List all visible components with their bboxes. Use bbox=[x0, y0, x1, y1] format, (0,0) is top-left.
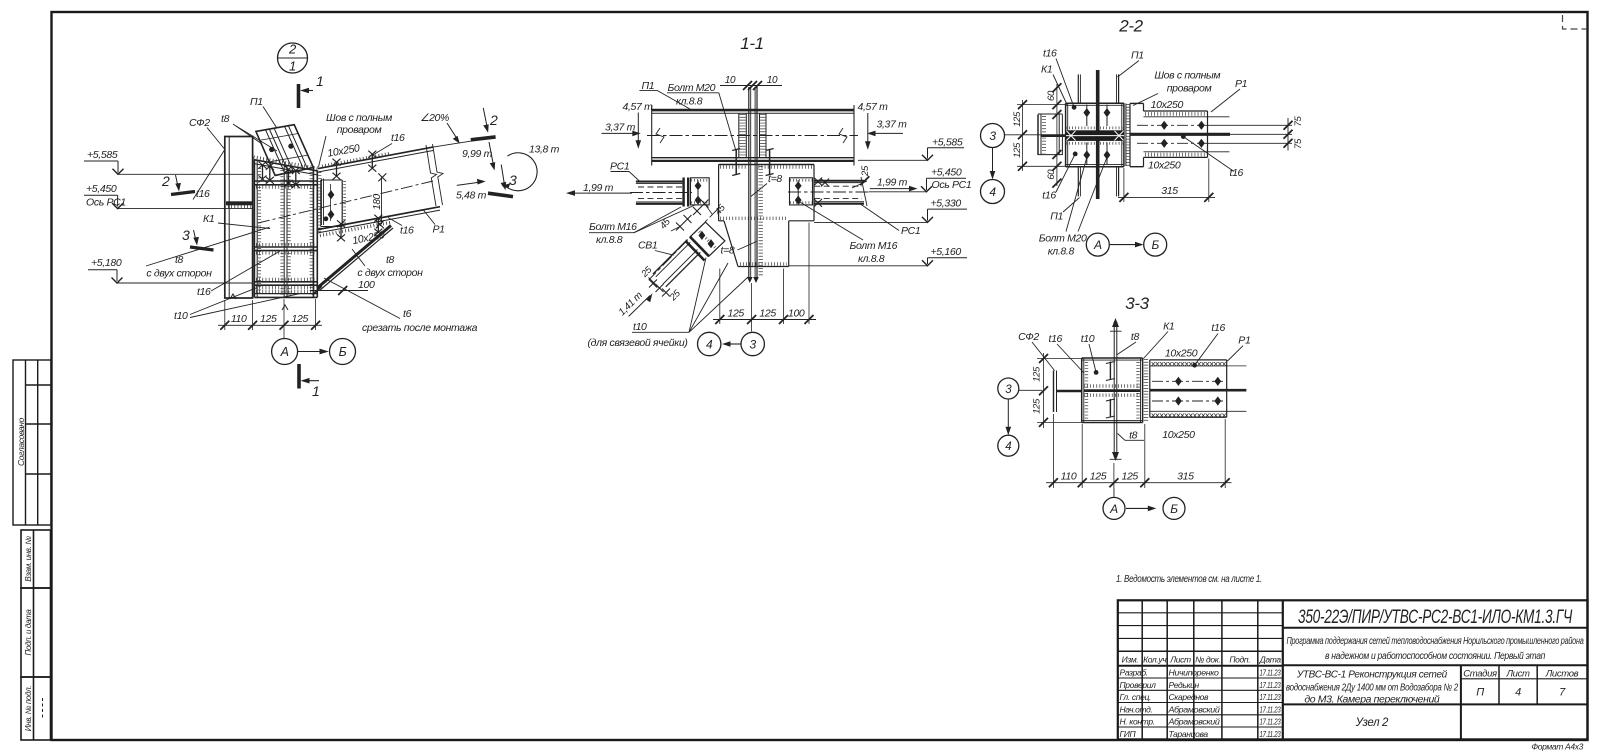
svg-text:УТВС-ВС-1 Реконструкция сетей: УТВС-ВС-1 Реконструкция сетей bbox=[1296, 670, 1448, 681]
svg-text:315: 315 bbox=[1161, 185, 1178, 197]
splice plates with weld serrations bbox=[739, 114, 766, 158]
P1 axis dash-dot bbox=[258, 181, 433, 223]
svg-text:60: 60 bbox=[1046, 90, 1057, 101]
svg-text:4: 4 bbox=[989, 185, 996, 199]
force 5,48t with section mark 3 (right) bbox=[456, 165, 517, 202]
svg-text:Гл. спец.: Гл. спец. bbox=[1120, 692, 1152, 702]
bolts M20 through bottom flange bbox=[732, 149, 773, 176]
svg-text:Р1: Р1 bbox=[1235, 78, 1247, 90]
grid circles 3 / 4 left bbox=[981, 124, 1042, 204]
elevation mark +5,585 bbox=[84, 149, 254, 174]
svg-text:Абрамовский: Абрамовский bbox=[1167, 717, 1220, 727]
svg-text:17.11.23: 17.11.23 bbox=[1260, 704, 1281, 714]
svg-text:Ничипоренко: Ничипоренко bbox=[1169, 668, 1220, 678]
svg-text:кл.8.8: кл.8.8 bbox=[858, 253, 885, 265]
svg-text:проваром: проваром bbox=[337, 124, 382, 136]
svg-text:9,99 т: 9,99 т bbox=[462, 148, 493, 160]
svg-text:5,48 т: 5,48 т bbox=[456, 190, 487, 202]
dim 315 (2-2) bbox=[1118, 159, 1215, 203]
svg-text:3,37 т: 3,37 т bbox=[877, 119, 908, 131]
svg-text:10: 10 bbox=[767, 75, 778, 86]
K1 panel horizontal members bbox=[254, 181, 317, 297]
svg-text:Нач.отд.: Нач.отд. bbox=[1120, 704, 1153, 714]
bolts (3-3) bbox=[1106, 362, 1115, 419]
svg-text:2-2: 2-2 bbox=[1118, 17, 1143, 36]
svg-text:СФ2: СФ2 bbox=[1018, 331, 1039, 343]
svg-text:Программа поддержания сетей те: Программа поддержания сетей тепловодосна… bbox=[1287, 635, 1585, 647]
svg-text:t8: t8 bbox=[221, 113, 230, 125]
svg-text:Узел 2: Узел 2 bbox=[1355, 717, 1389, 729]
svg-text:17.11.23: 17.11.23 bbox=[1260, 692, 1281, 702]
CB1 gusset tab (tilted square) bbox=[690, 222, 725, 256]
svg-text:1: 1 bbox=[316, 73, 323, 89]
svg-text:3-3: 3-3 bbox=[1125, 294, 1149, 313]
svg-text:Взам. инв. №: Взам. инв. № bbox=[24, 536, 33, 582]
25 jog at right beam end bbox=[852, 181, 867, 188]
svg-text:125: 125 bbox=[1012, 111, 1023, 127]
svg-text:315: 315 bbox=[1177, 471, 1194, 483]
beam P1 horizontal bbox=[652, 105, 854, 166]
svg-text:Листов: Листов bbox=[1545, 669, 1579, 680]
title block bbox=[1118, 600, 1588, 739]
svg-text:Шов с полным: Шов с полным bbox=[326, 112, 392, 124]
field weld flags bbox=[230, 294, 236, 299]
svg-text:75: 75 bbox=[1293, 138, 1304, 149]
svg-text:Кол.уч: Кол.уч bbox=[1143, 655, 1167, 665]
svg-text:К1: К1 bbox=[1163, 320, 1174, 332]
svg-text:Формат А4х3: Формат А4х3 bbox=[1531, 742, 1583, 752]
svg-text:10х250: 10х250 bbox=[1148, 160, 1181, 172]
dim 10 10 at top bbox=[720, 75, 782, 90]
svg-text:t=8: t=8 bbox=[768, 173, 782, 185]
svg-text:1: 1 bbox=[312, 383, 319, 399]
svg-text:110: 110 bbox=[231, 313, 247, 325]
svg-text:А: А bbox=[280, 345, 289, 359]
CB1 brace member lines bbox=[649, 240, 701, 288]
left RS1 end plates (dark) bbox=[682, 178, 684, 207]
svg-text:125: 125 bbox=[260, 313, 277, 325]
svg-text:+5,160: +5,160 bbox=[931, 246, 962, 258]
P1 break cut lines bbox=[426, 145, 437, 206]
left margin column: Soglasovano table bbox=[13, 360, 51, 525]
svg-text:до М3. Камера переключений: до М3. Камера переключений bbox=[1304, 695, 1440, 706]
svg-text:10х250: 10х250 bbox=[1162, 429, 1195, 441]
svg-text:t10: t10 bbox=[1081, 333, 1095, 345]
svg-text:2: 2 bbox=[288, 42, 297, 57]
corner cut mark top right bbox=[1563, 15, 1588, 29]
break marks bbox=[656, 128, 664, 143]
svg-text:4,57 т: 4,57 т bbox=[858, 101, 889, 113]
svg-text:А: А bbox=[1109, 502, 1118, 516]
right RS1 beam bbox=[814, 181, 864, 204]
svg-text:Проверил: Проверил bbox=[1120, 680, 1157, 690]
svg-text:1-1: 1-1 bbox=[740, 34, 764, 53]
svg-text:Таранцова: Таранцова bbox=[1169, 729, 1209, 739]
svg-text:t16: t16 bbox=[1043, 48, 1057, 60]
SF2 (3-3) bbox=[1053, 371, 1055, 413]
svg-text:125: 125 bbox=[1031, 366, 1042, 382]
svg-text:t16: t16 bbox=[1049, 333, 1063, 345]
svg-text:10х250: 10х250 bbox=[1151, 99, 1184, 111]
K1 cap sloped serrated band bbox=[254, 157, 318, 175]
vertical plate t8 (3-3) bbox=[1113, 322, 1115, 457]
svg-text:П1: П1 bbox=[1050, 211, 1063, 223]
SF2 profile (2-2) bbox=[1038, 114, 1062, 155]
svg-text:t8: t8 bbox=[1129, 430, 1138, 442]
svg-text:4: 4 bbox=[706, 338, 713, 352]
svg-text:1: 1 bbox=[289, 59, 296, 74]
svg-text:Р1: Р1 bbox=[1238, 335, 1250, 347]
svg-text:ГИП: ГИП bbox=[1120, 729, 1137, 739]
section mark 1 (bottom) bbox=[299, 364, 319, 399]
svg-text:Болт М16: Болт М16 bbox=[850, 240, 898, 252]
svg-text:125: 125 bbox=[1090, 471, 1107, 483]
gusset end plate on P1 bbox=[321, 180, 345, 227]
svg-text:125: 125 bbox=[292, 313, 309, 325]
svg-text:+5,180: +5,180 bbox=[91, 257, 122, 269]
svg-text:кл.8.8: кл.8.8 bbox=[596, 234, 623, 246]
svg-text:кл.8.8: кл.8.8 bbox=[676, 96, 703, 108]
svg-text:t16: t16 bbox=[1230, 167, 1244, 179]
svg-text:3: 3 bbox=[1005, 384, 1012, 396]
svg-text:+5,585: +5,585 bbox=[87, 149, 118, 161]
svg-text:Болт М20: Болт М20 bbox=[668, 82, 716, 94]
svg-text:1,99 т: 1,99 т bbox=[583, 182, 614, 194]
svg-text:Б: Б bbox=[339, 345, 347, 359]
diagonal bracket under beam t8 bbox=[317, 226, 393, 291]
bolts (2-2) bbox=[1087, 105, 1107, 165]
svg-text:25: 25 bbox=[860, 165, 871, 177]
svg-text:3: 3 bbox=[750, 338, 757, 352]
beam P1 axis bbox=[647, 135, 858, 137]
purlin P1 tilted box (two sections) bbox=[256, 125, 314, 176]
grid circles 4 and 3 bbox=[698, 332, 765, 355]
svg-text:Инв. № подл.: Инв. № подл. bbox=[24, 686, 33, 732]
svg-text:4: 4 bbox=[1005, 441, 1011, 453]
svg-text:t8: t8 bbox=[1131, 331, 1140, 343]
P1 web edge-on (thick center vertical) bbox=[1096, 70, 1100, 199]
25 25 dims at brace end bbox=[649, 280, 657, 288]
dim 60/60 chain (2-2) bbox=[1046, 83, 1061, 187]
svg-text:проваром: проваром bbox=[1167, 83, 1212, 95]
svg-text:Р1: Р1 bbox=[433, 224, 445, 236]
svg-text:+5,330: +5,330 bbox=[931, 198, 962, 210]
gusset weld serration rows bbox=[720, 167, 812, 264]
svg-text:Б: Б bbox=[1151, 238, 1159, 252]
svg-text:с двух сторон: с двух сторон bbox=[146, 268, 212, 280]
svg-text:РС1: РС1 bbox=[610, 161, 629, 173]
svg-text:75: 75 bbox=[1293, 116, 1304, 127]
svg-text:водоснабжения 2Ду 1400 мм от В: водоснабжения 2Ду 1400 мм от Водозабора … bbox=[1286, 682, 1459, 694]
svg-text:180: 180 bbox=[372, 193, 383, 209]
elevation mark +5,450 Os RS1 bbox=[84, 183, 253, 209]
bolt rows in P1 (3-3) bbox=[1152, 380, 1227, 382]
svg-text:10: 10 bbox=[725, 75, 736, 86]
svg-text:Абрамовский: Абрамовский bbox=[1167, 704, 1220, 714]
bottom dims 125/125/100 bbox=[713, 223, 816, 332]
flange splice thick band (2-2) bbox=[1041, 134, 1066, 137]
section mark 2 (left side) bbox=[161, 173, 195, 195]
svg-text:3: 3 bbox=[989, 129, 996, 143]
left dim 125/125 (2-2) bbox=[1012, 100, 1067, 171]
svg-text:xxxxxxxxxxxxxxxxxx: xxxxxxxxxxxxxxxxxx bbox=[1151, 410, 1227, 419]
svg-text:П: П bbox=[1476, 687, 1484, 699]
svg-text:3: 3 bbox=[509, 172, 517, 188]
svg-text:П1: П1 bbox=[250, 96, 263, 108]
svg-text:t6: t6 bbox=[403, 308, 412, 320]
rafter beam P1 top chord bbox=[318, 138, 488, 172]
svg-text:Ось РС1: Ось РС1 bbox=[932, 179, 972, 191]
svg-text:К1: К1 bbox=[203, 213, 214, 225]
svg-text:Стадия: Стадия bbox=[1463, 669, 1497, 680]
section mark 3 (left side) bbox=[182, 227, 214, 250]
svg-text:17.11.23: 17.11.23 bbox=[1260, 717, 1281, 727]
svg-text:СФ2: СФ2 bbox=[189, 117, 210, 129]
left bolt cleat bbox=[691, 178, 710, 205]
svg-text:СВ1: СВ1 bbox=[638, 240, 657, 252]
rafter beam P1 bottom chord bbox=[318, 207, 440, 236]
svg-text:РС1: РС1 bbox=[901, 225, 920, 237]
svg-text:t16: t16 bbox=[1042, 190, 1056, 202]
P1 beam bracket (2-2) bbox=[1130, 103, 1230, 166]
svg-text:Изм.: Изм. bbox=[1122, 655, 1139, 665]
left RS1 beam bbox=[636, 182, 683, 204]
svg-text:Подп. и дата: Подп. и дата bbox=[24, 609, 33, 656]
bottom dimension chain 110/125/125 bbox=[218, 299, 322, 339]
svg-text:Редькин: Редькин bbox=[1169, 680, 1200, 690]
K1 box (2-2) bbox=[1066, 103, 1124, 167]
svg-text:кл.8.8: кл.8.8 bbox=[1048, 246, 1075, 258]
hanger vertical member bbox=[749, 87, 757, 280]
svg-text:в надежном и работоспособном с: в надежном и работоспособном состоянии. … bbox=[1325, 650, 1546, 662]
svg-text:125: 125 bbox=[1031, 398, 1042, 414]
K1 box (3-3) bbox=[1082, 358, 1143, 423]
svg-text:60: 60 bbox=[1046, 169, 1057, 180]
svg-text:t=8: t=8 bbox=[721, 245, 735, 257]
svg-text:(для связевой ячейки): (для связевой ячейки) bbox=[588, 337, 688, 349]
svg-text:с двух сторон: с двух сторон bbox=[357, 267, 423, 279]
svg-text:1,99 т: 1,99 т bbox=[877, 177, 908, 189]
svg-text:Дата: Дата bbox=[1259, 655, 1282, 665]
svg-text:Лист: Лист bbox=[1505, 669, 1529, 680]
SF2 mid thick plate mark bbox=[226, 201, 253, 205]
svg-text:Б: Б bbox=[1170, 502, 1178, 516]
K1 panel weld serrations bbox=[256, 168, 316, 295]
svg-text:3,37 т: 3,37 т bbox=[605, 122, 636, 134]
grid circles A / B (3-3) bbox=[1103, 488, 1185, 519]
svg-text:К1: К1 bbox=[1041, 64, 1052, 76]
vertical weld serration along hanger bbox=[759, 166, 763, 277]
svg-text:№ док.: № док. bbox=[1195, 655, 1220, 665]
svg-text:100: 100 bbox=[358, 279, 375, 291]
svg-text:125: 125 bbox=[1121, 471, 1138, 483]
75/75 dims right (2-2) bbox=[1208, 116, 1304, 151]
svg-text:13,8 т: 13,8 т bbox=[529, 144, 560, 156]
gusset plate t=8 outline bbox=[719, 165, 814, 267]
svg-text:10х250: 10х250 bbox=[1165, 348, 1198, 360]
view circle 2/1 bbox=[278, 42, 308, 74]
CB1 brace axis bbox=[649, 208, 719, 280]
svg-text:t16: t16 bbox=[391, 132, 405, 144]
svg-text:17.11.23: 17.11.23 bbox=[1260, 729, 1281, 739]
svg-text:Болт М16: Болт М16 bbox=[589, 221, 637, 233]
bolt rows in P1 beam (2-2) bbox=[1137, 124, 1208, 126]
svg-text:t16: t16 bbox=[1211, 322, 1225, 334]
left dims 125/125 (3-3) bbox=[1031, 353, 1083, 428]
section mark 1 (top) bbox=[299, 73, 324, 108]
svg-text:Согласовано: Согласовано bbox=[16, 417, 26, 466]
svg-text:xxxxxxxxxxxxxxxxxx: xxxxxxxxxxxxxxxxxx bbox=[1151, 359, 1227, 368]
svg-text:2: 2 bbox=[489, 112, 498, 128]
bottom dims 110/125/125/315 (3-3) bbox=[1046, 414, 1232, 496]
svg-text:срезать после монтажа: срезать после монтажа bbox=[362, 322, 478, 334]
180 dimension inside beam bbox=[372, 173, 386, 228]
svg-text:t10: t10 bbox=[633, 321, 647, 333]
left margin column: Vzam inv block bbox=[21, 530, 51, 740]
column SF2 bbox=[225, 137, 253, 299]
svg-text:125: 125 bbox=[1012, 142, 1023, 158]
bolts on cap and first member bbox=[259, 162, 300, 189]
P1 beam (3-3) bbox=[1150, 360, 1247, 417]
force 9,99t with section mark 2 (right) bbox=[462, 108, 498, 171]
svg-text:+5,585: +5,585 bbox=[932, 137, 963, 149]
svg-text:+5,450: +5,450 bbox=[86, 183, 117, 195]
svg-text:t16: t16 bbox=[196, 188, 210, 200]
grid circles A, B with arrow bbox=[272, 339, 356, 365]
svg-text:100: 100 bbox=[788, 308, 805, 320]
svg-text:Лист: Лист bbox=[1169, 655, 1191, 665]
svg-text:t16: t16 bbox=[400, 225, 414, 237]
svg-text:Н. контр.: Н. контр. bbox=[1120, 717, 1155, 727]
45 dims on brace diagonal bbox=[676, 223, 684, 231]
svg-text:Разраб.: Разраб. bbox=[1120, 668, 1148, 678]
svg-text:1. Ведомость элементов см. на: 1. Ведомость элементов см. на листе 1. bbox=[1116, 574, 1262, 585]
svg-text:А: А bbox=[1093, 238, 1102, 252]
P1 beams vertical (2-2) bbox=[1078, 74, 1118, 196]
elevation mark +5,180 bbox=[88, 257, 253, 283]
K1 panel verticals bbox=[254, 160, 317, 297]
svg-text:+5,450: +5,450 bbox=[931, 167, 962, 179]
svg-text:t10: t10 bbox=[174, 310, 188, 322]
weld face between box and beam (3-3) bbox=[1144, 359, 1149, 422]
svg-text:Скареднов: Скареднов bbox=[1169, 692, 1210, 702]
svg-text:4,57 т: 4,57 т bbox=[623, 101, 654, 113]
svg-text:2: 2 bbox=[161, 173, 170, 189]
svg-text:17.11.23: 17.11.23 bbox=[1260, 668, 1281, 678]
bolts on P1 chords bbox=[333, 151, 383, 242]
svg-text:350-22Э/ПИР/УТВС-РС2-ВС1-ИЛО-К: 350-22Э/ПИР/УТВС-РС2-ВС1-ИЛО-КМ1.3.ГЧ bbox=[1298, 607, 1572, 628]
svg-text:Шов с полным: Шов с полным bbox=[1154, 70, 1220, 82]
grid circles A / B (2-2) bbox=[1086, 233, 1166, 256]
svg-text:t16: t16 bbox=[197, 286, 211, 298]
svg-text:Подп.: Подп. bbox=[1229, 655, 1250, 665]
svg-text:125: 125 bbox=[727, 308, 744, 320]
svg-text:П1: П1 bbox=[1131, 49, 1144, 61]
svg-text:3: 3 bbox=[182, 227, 190, 243]
weld face at column, beam end plate, bolt axis bbox=[317, 172, 321, 233]
full-penetration weld face (2-2) bbox=[1125, 103, 1127, 166]
svg-text:∠20%: ∠20% bbox=[420, 112, 449, 124]
right bolt cleat bbox=[790, 178, 813, 205]
svg-text:4: 4 bbox=[1515, 687, 1521, 699]
svg-text:125: 125 bbox=[759, 308, 776, 320]
svg-text:Болт М20: Болт М20 bbox=[1039, 233, 1087, 245]
svg-text:110: 110 bbox=[1061, 471, 1077, 483]
svg-text:t8: t8 bbox=[386, 254, 395, 266]
grid circles 3 / 4 (3-3) bbox=[998, 378, 1042, 456]
svg-text:17.11.23: 17.11.23 bbox=[1260, 680, 1281, 690]
